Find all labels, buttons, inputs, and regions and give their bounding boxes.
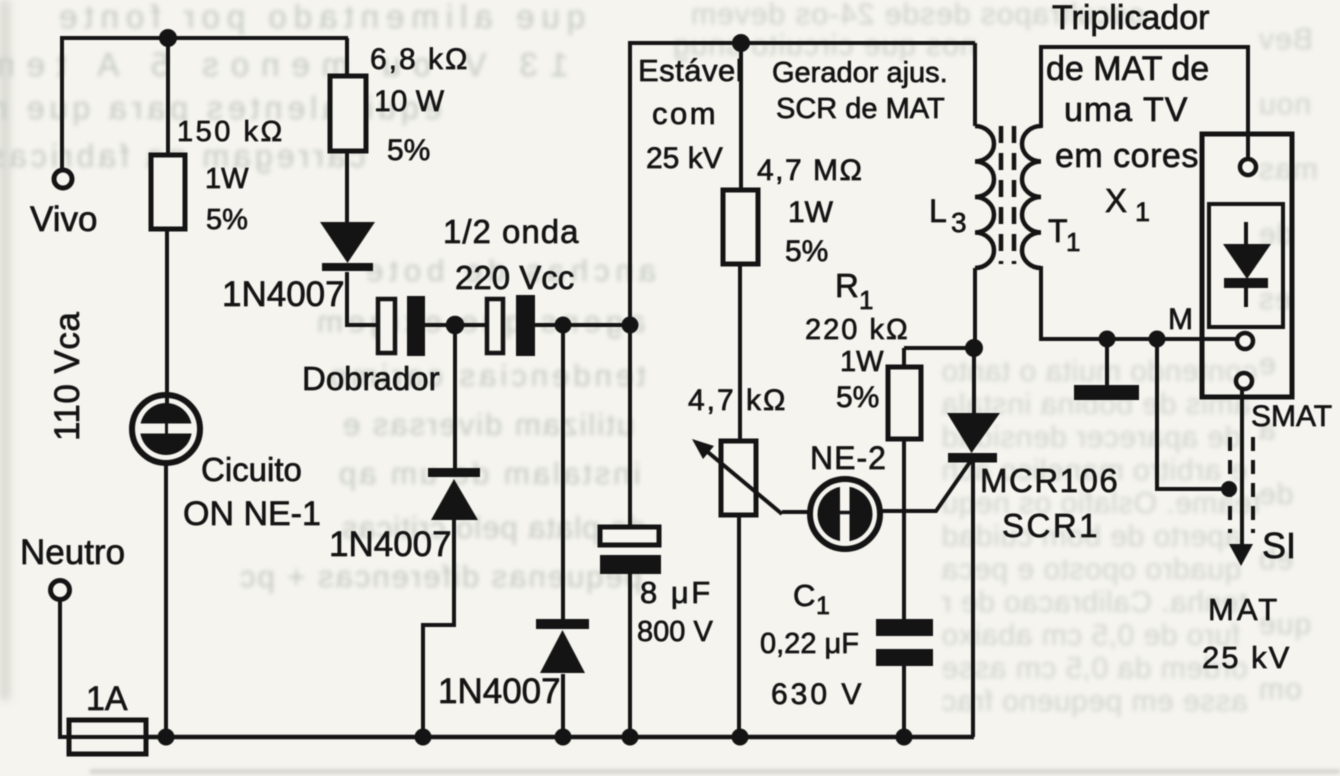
BLEEDTEXT	[0, 0, 10, 700]
wire 8uF to bottom	[628, 574, 632, 737]
svg-text:1W: 1W	[788, 196, 834, 229]
svg-text:25 kV: 25 kV	[646, 142, 723, 175]
svg-text:Cicuito: Cicuito	[201, 451, 302, 488]
inductor T1 secondary winding	[1022, 126, 1041, 268]
terminal Neutro	[51, 581, 70, 600]
svg-text:110 Vca: 110 Vca	[48, 312, 87, 441]
terminal Vivo	[54, 170, 72, 188]
svg-text:25 kV: 25 kV	[1202, 640, 1291, 675]
svg-text:de MAT de: de MAT de	[1046, 50, 1209, 88]
tripler inner box	[1209, 204, 1283, 327]
wire 4.7M upper	[739, 43, 743, 190]
svg-text:X: X	[1105, 182, 1127, 219]
label SMAT	[1251, 400, 1332, 433]
thyristor SCR1 MCR106	[947, 348, 1000, 737]
svg-text:1: 1	[1066, 227, 1080, 257]
svg-text:220 Vcc: 220 Vcc	[455, 259, 574, 296]
label Dobrador	[302, 360, 440, 397]
label C1 0,22 uF 630 V	[760, 578, 864, 711]
svg-text:800 V: 800 V	[637, 616, 713, 648]
svg-text:5%: 5%	[836, 381, 879, 414]
wire D2 branch upper	[453, 325, 457, 469]
cable SMAT dashed shield	[1230, 437, 1253, 533]
capacitor 8uF 800V	[600, 527, 661, 574]
wire bottom rail	[146, 735, 974, 740]
svg-text:1: 1	[859, 285, 873, 315]
svg-text:T: T	[1048, 213, 1068, 249]
wire lamp to gate	[880, 462, 970, 511]
svg-text:0,22 μF: 0,22 μF	[760, 628, 859, 660]
svg-text:SCR de MAT: SCR de MAT	[776, 93, 945, 125]
wire MAT output with arrow	[1229, 389, 1253, 566]
wire R1 top link	[904, 348, 974, 367]
svg-text:NE-2: NE-2	[810, 440, 887, 476]
wire pot to bottom	[737, 515, 741, 737]
svg-text:Estável: Estável	[638, 53, 743, 88]
tripler X1 box	[1202, 134, 1292, 397]
svg-text:10 W: 10 W	[374, 85, 445, 118]
label 110 Vca (rotated)	[48, 312, 87, 441]
node bottom junctions	[158, 729, 913, 746]
svg-text:MCR106: MCR106	[980, 462, 1119, 499]
svg-text:5%: 5%	[206, 204, 248, 236]
wire secondary top to tripler	[1041, 47, 1248, 160]
lamp NE-1	[132, 395, 200, 463]
svg-text:8 μF: 8 μF	[640, 575, 713, 610]
svg-text:1N4007: 1N4007	[438, 672, 561, 711]
resistor 6.8k 10W	[330, 76, 366, 151]
wire 150k to lamp	[165, 229, 169, 404]
wire L3 bottom to SCR	[973, 268, 977, 348]
wire Neutro to fuse	[60, 600, 69, 737]
label 1A	[86, 680, 128, 718]
svg-text:ON NE-1: ON NE-1	[183, 495, 321, 533]
wire 6.8k to D1	[345, 151, 349, 224]
diode D2 1N4007	[428, 468, 480, 520]
svg-text:1: 1	[816, 592, 830, 620]
svg-text:1A: 1A	[86, 680, 128, 718]
svg-text:uma TV: uma TV	[1064, 91, 1188, 129]
wire secondary bottom to M	[1041, 266, 1237, 339]
wire D1 to doubler	[347, 272, 377, 325]
svg-text:M: M	[1168, 303, 1193, 336]
svg-text:Gerador ajus.: Gerador ajus.	[772, 57, 948, 89]
wire 150k column upper	[166, 38, 170, 155]
label L3	[929, 193, 967, 238]
label Neutro	[20, 533, 125, 572]
svg-text:Neutro: Neutro	[20, 533, 125, 572]
wire D3 to bottom	[561, 674, 565, 737]
terminal tripler input	[1240, 159, 1256, 175]
svg-text:MAT: MAT	[1208, 592, 1280, 627]
inductor L3 primary winding	[975, 126, 994, 268]
label 4,7 MOhm 1W 5%	[757, 154, 863, 268]
resistor R1 220k	[888, 367, 921, 439]
wire C1 to bottom	[902, 666, 906, 737]
capacitor doubler C-a	[378, 296, 425, 356]
label NE-2	[810, 440, 887, 476]
terminal M	[1237, 333, 1253, 349]
svg-text:SMAT: SMAT	[1251, 400, 1332, 433]
label 1N4007 D1	[222, 275, 345, 314]
label Triplicador de MAT de uma TV em cores	[1046, 0, 1209, 227]
capacitor C1 0,22uF	[876, 619, 933, 666]
svg-text:Dobrador: Dobrador	[302, 360, 440, 397]
resistor 150k	[151, 155, 185, 229]
svg-text:C: C	[793, 578, 815, 613]
svg-text:SI: SI	[1262, 525, 1296, 566]
svg-text:150 kΩ: 150 kΩ	[177, 116, 285, 148]
svg-text:1W: 1W	[840, 346, 884, 378]
terminal SMAT	[1236, 373, 1252, 389]
wire D2 to bottom	[423, 519, 454, 737]
node shield tap	[1221, 481, 1237, 497]
svg-text:5%: 5%	[387, 134, 430, 167]
node doubler junction 1	[446, 316, 465, 335]
node ground junction	[1099, 331, 1116, 348]
transformer T1 core	[1001, 126, 1014, 264]
svg-text:220 kΩ: 220 kΩ	[805, 314, 910, 346]
label 150 kOhm 1W 5%	[177, 116, 285, 236]
lamp NE-2	[810, 479, 880, 549]
wire M to shield	[1157, 339, 1229, 489]
svg-text:Vivo: Vivo	[30, 200, 97, 239]
label SI	[1262, 525, 1296, 566]
wire L3 primary top	[973, 43, 977, 126]
potentiometer wiper arrow	[692, 439, 782, 514]
diode D3 1N4007	[536, 619, 589, 673]
fuse F1 1A	[69, 720, 146, 754]
label 4,7 kOhm	[688, 384, 787, 417]
svg-text:5%: 5%	[785, 235, 828, 268]
label 1N4007 D3	[438, 672, 561, 711]
wire D3 branch upper	[561, 325, 565, 620]
label Vivo	[30, 200, 97, 239]
node main junction	[622, 317, 639, 334]
wire pot wiper to lamp	[782, 510, 810, 514]
wire doubler out	[535, 323, 630, 327]
node junction SCR anode	[965, 339, 983, 357]
svg-text:1N4007: 1N4007	[329, 525, 452, 564]
wire 4.7M to pot	[738, 264, 742, 441]
label 1/2 onda 220 Vcc	[443, 213, 579, 296]
node doubler junction 2	[555, 317, 572, 334]
wire Vivo stub	[60, 36, 64, 170]
label T1	[1048, 213, 1080, 257]
wire main vertical x630	[628, 41, 632, 527]
svg-text:4,7 MΩ: 4,7 MΩ	[757, 154, 863, 187]
wire lamp to bottom	[164, 463, 168, 737]
resistor 4.7M	[723, 190, 758, 264]
svg-text:3: 3	[951, 207, 967, 238]
node junction top-left	[159, 29, 177, 47]
svg-text:L: L	[929, 193, 947, 229]
label R1 220 kOhm 1W 5%	[805, 267, 910, 414]
label Estavel com 25 kV	[638, 53, 743, 175]
diode tripler internal	[1223, 222, 1271, 307]
svg-text:com: com	[652, 96, 718, 131]
svg-text:em cores: em cores	[1055, 137, 1199, 175]
wire between doubler caps	[425, 323, 487, 327]
wire top middle rail	[630, 41, 975, 45]
svg-text:1: 1	[1135, 197, 1150, 227]
svg-text:630 V: 630 V	[771, 678, 864, 711]
label Gerador ajus. SCR de MAT	[772, 57, 948, 125]
label Cicuito ON NE-1	[183, 451, 321, 533]
capacitor doubler C-b	[487, 295, 535, 356]
svg-text:1N4007: 1N4007	[222, 275, 345, 314]
wire 6.8k branch	[345, 38, 349, 76]
label MAT 25 kV	[1202, 592, 1291, 675]
svg-text:1W: 1W	[205, 163, 249, 195]
diode D1 1N4007	[320, 222, 375, 271]
ground	[1074, 339, 1139, 400]
label M	[1168, 303, 1193, 336]
potentiometer 4,7k body	[721, 441, 756, 515]
label 8 uF 800 V	[637, 575, 713, 648]
node junction 4.7M top	[732, 34, 750, 52]
node shield junction	[1149, 331, 1166, 348]
svg-text:6,8 kΩ: 6,8 kΩ	[370, 43, 469, 76]
label 6,8 kOhm 10W 5%	[370, 43, 469, 167]
svg-text:R: R	[835, 267, 859, 304]
label 1N4007 D2	[329, 525, 452, 564]
wire top-left horizontal	[62, 36, 348, 40]
svg-text:1/2 onda: 1/2 onda	[443, 213, 579, 250]
svg-text:4,7 kΩ: 4,7 kΩ	[688, 384, 787, 417]
label MCR106 SCR1	[980, 462, 1119, 544]
wire R1 to C1	[902, 439, 906, 619]
svg-text:SCR1: SCR1	[1002, 507, 1100, 544]
svg-text:Triplicador: Triplicador	[1052, 0, 1209, 37]
